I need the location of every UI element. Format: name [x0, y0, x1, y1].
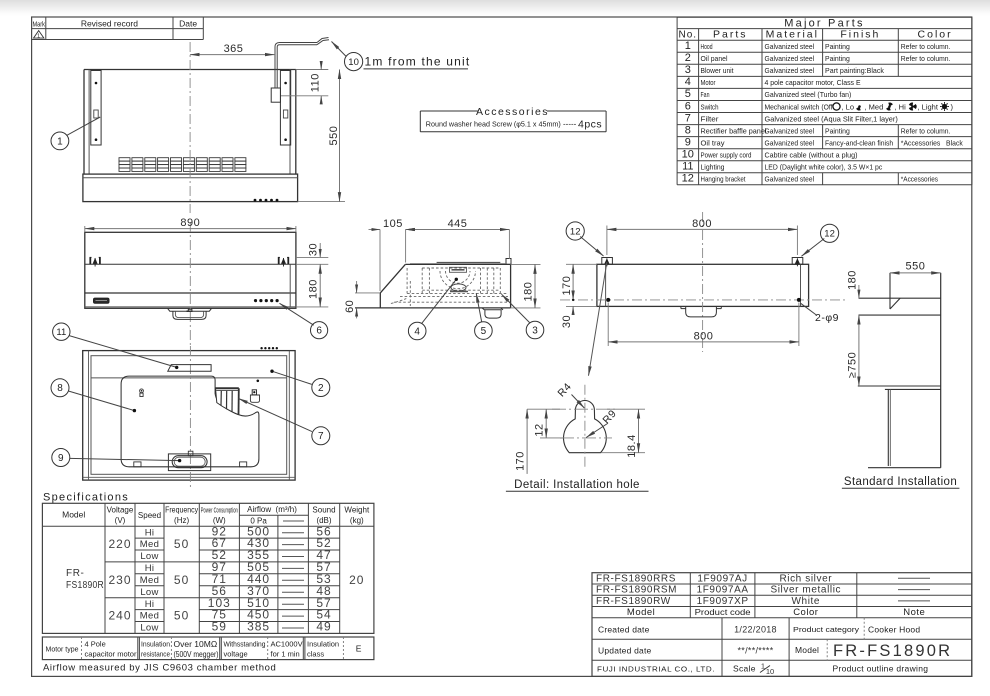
svg-text:capacitor motor: capacitor motor [85, 650, 138, 659]
balloon 9 leader [70, 458, 180, 460]
svg-text:20: 20 [349, 573, 364, 587]
balloon 3 leader [502, 294, 530, 322]
hanging bracket left (mounting view) [602, 258, 613, 267]
balloon 12 left [566, 222, 584, 240]
svg-text:Parts: Parts [713, 29, 748, 41]
svg-text:(500V megger): (500V megger) [174, 650, 219, 659]
svg-text:7: 7 [318, 431, 324, 442]
svg-text:Fan: Fan [701, 90, 710, 99]
svg-text:Rectifier baffle panel: Rectifier baffle panel [701, 126, 767, 135]
svg-text:1F9097AA: 1F9097AA [697, 585, 749, 596]
svg-text:Med: Med [140, 611, 159, 622]
balloon 2 [312, 379, 330, 397]
svg-text:2: 2 [685, 52, 691, 64]
svg-text:Model: Model [795, 645, 819, 655]
svg-text:30: 30 [561, 315, 573, 328]
dim 445 [406, 218, 510, 259]
svg-text:Med: Med [140, 575, 159, 586]
svg-text:Over 10MΩ: Over 10MΩ [174, 639, 218, 649]
hanging bracket left (rear view) [91, 71, 101, 146]
dim 890 [85, 217, 296, 232]
svg-text:E: E [356, 644, 362, 654]
svg-text:Fancy-and-clean finish: Fancy-and-clean finish [825, 139, 893, 148]
svg-text:Frequency: Frequency [165, 506, 198, 515]
standard installation: hood profile [859, 273, 941, 315]
svg-text:1: 1 [685, 40, 691, 52]
svg-text:Switch: Switch [701, 102, 719, 111]
svg-text:6: 6 [316, 326, 322, 337]
bottom view: switch dots at front edge [260, 347, 278, 349]
bottom view: oil panel seam [91, 377, 287, 379]
lamp housing (bottom view) [168, 365, 211, 372]
svg-text:FR-FS1890R: FR-FS1890R [833, 642, 952, 660]
lamp below front view [168, 308, 212, 319]
svg-text:Galvanized steel: Galvanized steel [765, 54, 815, 63]
svg-text:180: 180 [308, 279, 320, 299]
svg-text:3: 3 [532, 325, 538, 336]
svg-text:18.4: 18.4 [626, 434, 638, 457]
balloon 12 left leader [580, 237, 603, 257]
svg-text:1F9097XP: 1F9097XP [697, 596, 749, 607]
svg-text:Withsstanding: Withsstanding [224, 640, 266, 649]
balloon 4 [408, 322, 426, 340]
rear view: switch dots on bottom edge [254, 199, 279, 202]
filter wing nut right [250, 390, 259, 403]
svg-text:49: 49 [316, 620, 331, 634]
balloon 5 [475, 322, 493, 340]
switch dots (balloon 6 target) [254, 299, 279, 302]
svg-text:Sound: Sound [312, 506, 335, 515]
svg-text:FR-FS1890RSM: FR-FS1890RSM [596, 585, 677, 596]
svg-text:Insulation: Insulation [141, 640, 170, 649]
svg-text:Material: Material [766, 29, 819, 41]
svg-text:Color: Color [918, 29, 953, 41]
svg-text:180: 180 [523, 282, 535, 302]
hanging bracket symbol right (front view) [278, 257, 289, 266]
svg-text:Blower unit: Blower unit [701, 66, 735, 75]
power supply cord [271, 38, 329, 103]
balloon 2 leader [272, 371, 312, 384]
svg-text:*Accessories Black: *Accessories Black [901, 139, 963, 148]
dim 30 (front view) [296, 243, 328, 264]
hanging bracket symbol left (front view) [90, 257, 101, 266]
svg-text:FS1890R: FS1890R [66, 580, 104, 591]
svg-text:Insulation: Insulation [307, 640, 339, 649]
svg-text:Finish: Finish [840, 29, 880, 41]
svg-text:FUJI INDUSTRIAL CO., LTD.: FUJI INDUSTRIAL CO., LTD. [597, 665, 715, 674]
svg-text:*Accessories: *Accessories [901, 175, 938, 184]
svg-text:Hi: Hi [145, 563, 155, 574]
svg-text:4: 4 [414, 326, 420, 337]
svg-text:550: 550 [328, 126, 340, 146]
dim 170 (detail) [514, 409, 560, 474]
svg-text:Airflow measured by JIS C9603: Airflow measured by JIS C9603 chamber me… [43, 663, 276, 674]
svg-text:240: 240 [108, 609, 131, 623]
svg-text:Lighting: Lighting [701, 163, 725, 172]
svg-text:Power Consumption: Power Consumption [201, 508, 238, 515]
svg-text:Color: Color [793, 607, 818, 618]
svg-text:10: 10 [766, 667, 774, 676]
balloon 7 [312, 427, 330, 445]
svg-text:Accessories: Accessories [476, 106, 549, 118]
dim >=750 (installation) [846, 315, 859, 386]
dim 110 [281, 62, 328, 104]
svg-text:59: 59 [212, 620, 227, 634]
mounting view: body [597, 264, 809, 306]
svg-text:60: 60 [344, 300, 356, 313]
svg-text:Revised record: Revised record [81, 18, 138, 28]
balloon 11 leader [69, 336, 177, 368]
dim 550 (installation) [890, 261, 941, 273]
svg-text:8: 8 [685, 124, 691, 136]
balloon 12 right leader [802, 239, 825, 257]
svg-text:White: White [792, 596, 821, 607]
side view: hidden internals (blower/fan/motor) [391, 267, 508, 306]
dim 105 [369, 218, 418, 291]
svg-text:, Light: , Light [918, 102, 939, 111]
panel rivet dot [257, 380, 260, 383]
svg-text:Med: Med [140, 539, 159, 550]
svg-text:Scale: Scale [733, 664, 756, 674]
balloon 9 [52, 449, 70, 467]
svg-text:Galvanized steel: Galvanized steel [765, 175, 815, 184]
svg-text:Specifications: Specifications [43, 492, 129, 504]
svg-text:9: 9 [58, 453, 64, 464]
svg-text:Note: Note [903, 607, 925, 618]
svg-text:Cooker Hood: Cooker Hood [868, 625, 920, 635]
detail view: keyhole shape [564, 401, 607, 453]
svg-text:Refer to column.: Refer to column. [901, 42, 951, 51]
svg-text:385: 385 [247, 620, 270, 634]
dim 180 (side view) [511, 264, 541, 308]
svg-text:Detail: Installation hole: Detail: Installation hole [514, 479, 640, 491]
svg-text:Rich silver: Rich silver [779, 573, 832, 584]
svg-text:230: 230 [108, 573, 131, 587]
svg-text:Product outline drawing: Product outline drawing [833, 664, 929, 674]
rear view: hood body rear [84, 70, 296, 175]
svg-text:R4: R4 [555, 381, 574, 400]
svg-text:110: 110 [310, 73, 322, 92]
balloon 10 [345, 53, 363, 71]
svg-text:170: 170 [514, 451, 526, 471]
dim 180 (installation) [846, 270, 859, 298]
svg-text:2-φ9: 2-φ9 [815, 312, 839, 324]
svg-text:4 Pole: 4 Pole [85, 640, 106, 649]
svg-text:800: 800 [694, 331, 714, 343]
svg-text:Galvanized steel: Galvanized steel [765, 42, 815, 51]
svg-text:Model: Model [627, 607, 655, 618]
balloon 5 leader [476, 293, 482, 322]
svg-text:220: 220 [108, 537, 131, 551]
svg-text:voltage: voltage [224, 650, 248, 659]
title block [592, 573, 972, 677]
svg-text:Round washer head Screw (φ5.1: Round washer head Screw (φ5.1 x 45mm) [426, 120, 561, 129]
svg-text:Part painting:Black: Part painting:Black [825, 66, 884, 75]
svg-text:890: 890 [180, 217, 200, 229]
revision table [32, 28, 204, 30]
svg-text:800: 800 [692, 218, 712, 230]
svg-text:Oil panel: Oil panel [701, 54, 728, 63]
svg-text:Voltage: Voltage [107, 506, 134, 515]
svg-text:12: 12 [824, 229, 835, 240]
mounting view: centerlines [560, 299, 845, 301]
balloon 7 leader [239, 399, 313, 432]
svg-text:Oil tray: Oil tray [701, 139, 725, 148]
balloon 8 leader [69, 391, 135, 411]
balloon 1 [51, 132, 69, 150]
dim 800 bottom [608, 303, 799, 347]
dim 550 [298, 70, 345, 202]
svg-text:FR-FS1890RRS: FR-FS1890RRS [596, 573, 676, 584]
front view: centerline [189, 222, 191, 345]
svg-text:(kg): (kg) [350, 516, 364, 525]
svg-text:5: 5 [685, 88, 691, 100]
svg-text:11: 11 [682, 161, 693, 173]
svg-text:7: 7 [685, 112, 691, 124]
dim 60 (side view) [344, 281, 380, 318]
svg-text:Weight: Weight [344, 506, 370, 515]
balloon 3 [526, 321, 544, 339]
svg-text:4pcs: 4pcs [578, 119, 602, 131]
lamp bump (mounting view bottom) [681, 306, 721, 317]
svg-text:3: 3 [685, 64, 691, 76]
svg-text:1F9097AJ: 1F9097AJ [697, 573, 747, 584]
svg-text:-----: ----- [563, 120, 577, 129]
hanging bracket right (mounting view) [792, 258, 803, 267]
svg-text:Power supply cord: Power supply cord [701, 151, 752, 160]
balloon 10 leader [332, 42, 347, 57]
svg-text:1: 1 [57, 136, 63, 147]
logo badge [94, 298, 110, 303]
rear view: louver grille [119, 158, 246, 172]
svg-text:Major Parts: Major Parts [784, 18, 864, 30]
svg-text:≥750: ≥750 [846, 352, 858, 378]
svg-text:11: 11 [56, 327, 66, 338]
detail view: centerlines [584, 385, 586, 469]
balloon 4 leader [422, 279, 457, 323]
svg-text:Model: Model [62, 510, 85, 520]
balloon 12 right [821, 224, 839, 242]
svg-text:Painting: Painting [825, 126, 850, 135]
svg-text:Filter: Filter [701, 114, 720, 123]
svg-text:Low: Low [140, 587, 158, 598]
accessories note box [420, 106, 606, 132]
panel notches [134, 462, 141, 467]
svg-text:, Med: , Med [865, 102, 884, 111]
front view: hood body front [85, 232, 296, 308]
specifications table grid [42, 503, 374, 633]
svg-text:12: 12 [534, 423, 546, 436]
svg-text:LED (Daylight white color), 3.: LED (Daylight white color), 3.5 W×1 pc [765, 163, 883, 172]
svg-text:(Hz): (Hz) [174, 516, 189, 525]
svg-text:Updated date: Updated date [598, 646, 652, 656]
svg-text:Refer to column.: Refer to column. [901, 126, 951, 135]
svg-text:class: class [307, 650, 324, 659]
svg-text:Galvanized steel (Turbo fan): Galvanized steel (Turbo fan) [765, 90, 852, 99]
svg-text:550: 550 [905, 261, 925, 273]
svg-text:12: 12 [682, 173, 694, 185]
svg-text:AC1000V: AC1000V [271, 640, 303, 649]
svg-text:Airflow (m³/h): Airflow (m³/h) [247, 505, 297, 514]
svg-text:445: 445 [448, 218, 468, 230]
major parts table [677, 16, 972, 18]
svg-text:170: 170 [561, 276, 573, 296]
svg-text:9: 9 [685, 137, 691, 149]
dim 170 (mounting view) [561, 264, 597, 300]
svg-text:50: 50 [174, 537, 189, 551]
balloon 1 leader [67, 117, 100, 135]
hanging bracket right (rear view) [280, 71, 290, 146]
svg-text:Mechanical switch (Off: Mechanical switch (Off [765, 102, 834, 111]
balloon 6 leader [280, 303, 314, 325]
svg-text:365: 365 [224, 43, 244, 55]
svg-text:): ) [951, 102, 954, 111]
balloon 8 [51, 379, 69, 397]
bottom view: centerline [189, 346, 191, 490]
svg-text:, Hi: , Hi [895, 102, 907, 111]
svg-text:Painting: Painting [825, 54, 850, 63]
dim 365 [190, 43, 274, 55]
rectifier baffle panel (bottom view) [121, 376, 259, 467]
svg-text:R9: R9 [600, 408, 619, 427]
svg-text:Date: Date [179, 18, 197, 28]
svg-text:resistance: resistance [141, 650, 170, 659]
balloon 11 [53, 323, 70, 340]
side view: outline [355, 259, 511, 308]
side view: lamp bottom [482, 308, 503, 318]
svg-text:8: 8 [57, 383, 63, 394]
dim 12 (detail) [534, 409, 563, 438]
svg-text:Hi: Hi [145, 527, 155, 538]
filter screw left [140, 389, 144, 397]
svg-text:4: 4 [685, 76, 691, 88]
svg-text:30: 30 [308, 243, 320, 256]
standard installation: wall [940, 273, 942, 468]
dim 800 top [607, 218, 798, 255]
svg-text:1: 1 [37, 33, 40, 39]
svg-text:Created date: Created date [598, 625, 650, 635]
svg-text:1m from the unit: 1m from the unit [365, 55, 471, 69]
dim 180 (front view) [296, 264, 328, 307]
detail callout arrow from bracket to detail view [589, 262, 607, 376]
svg-text:Mark: Mark [32, 19, 45, 28]
svg-text:Refer to column.: Refer to column. [901, 54, 951, 63]
svg-text:Galvanized steel (Aqua Slit Fi: Galvanized steel (Aqua Slit Filter,1 lay… [765, 114, 899, 123]
svg-text:Hanging bracket: Hanging bracket [701, 175, 747, 184]
svg-text:180: 180 [846, 270, 858, 290]
bottom view: outer case [83, 351, 295, 481]
svg-text:50: 50 [174, 573, 189, 587]
rear view: centerline [189, 42, 191, 213]
svg-text:Galvanized steel: Galvanized steel [765, 66, 815, 75]
svg-text:12: 12 [570, 226, 581, 237]
svg-text:105: 105 [383, 218, 403, 230]
svg-text:Product code: Product code [695, 607, 751, 617]
svg-text:4 pole capacitor motor, Class: 4 pole capacitor motor, Class E [765, 78, 861, 87]
revision mark triangle [34, 31, 44, 38]
svg-text:, Lo: , Lo [842, 102, 855, 111]
svg-text:Hi: Hi [145, 599, 155, 610]
filter (bottom view) [216, 388, 239, 414]
svg-text:1/22/2018: 1/22/2018 [734, 625, 777, 635]
standard installation: counter and cabinet [858, 386, 941, 468]
svg-text:10: 10 [682, 149, 694, 161]
svg-text:Motor: Motor [701, 78, 716, 87]
svg-text:**/**/****: **/**/**** [737, 646, 773, 656]
svg-text:Cabtire cable (without a plug): Cabtire cable (without a plug) [765, 151, 858, 160]
dim 18.4 (detail) [601, 409, 645, 458]
svg-text:Hood: Hood [701, 42, 713, 51]
oil tray (bottom view) [168, 451, 210, 470]
svg-text:Product category: Product category [793, 625, 859, 634]
rear view: bottom strip [83, 174, 298, 202]
svg-text:for 1 min: for 1 min [271, 650, 300, 659]
svg-text:Painting: Painting [825, 42, 850, 51]
svg-text:Silver metallic: Silver metallic [770, 585, 841, 596]
svg-text:FR-FS1890RW: FR-FS1890RW [596, 596, 671, 607]
svg-text:FR-: FR- [66, 568, 84, 579]
svg-text:Speed: Speed [138, 511, 161, 520]
dim 30 (mounting view) [561, 306, 597, 328]
svg-text:Galvanized steel: Galvanized steel [765, 126, 815, 135]
svg-text:Standard Installation: Standard Installation [844, 476, 957, 488]
svg-text:Galvanized steel: Galvanized steel [765, 139, 815, 148]
svg-text:2: 2 [318, 383, 324, 394]
balloon 6 [311, 322, 328, 339]
svg-text:10: 10 [348, 57, 359, 68]
svg-text:Low: Low [140, 623, 158, 634]
svg-text:5: 5 [481, 326, 487, 337]
svg-text:(V): (V) [115, 516, 126, 525]
svg-text:6: 6 [685, 100, 691, 112]
svg-text:50: 50 [174, 609, 189, 623]
svg-text:Motor type: Motor type [46, 647, 79, 654]
installation holes 2-phi9 [606, 298, 610, 302]
motor type row [42, 637, 374, 660]
svg-text:Low: Low [140, 551, 158, 562]
